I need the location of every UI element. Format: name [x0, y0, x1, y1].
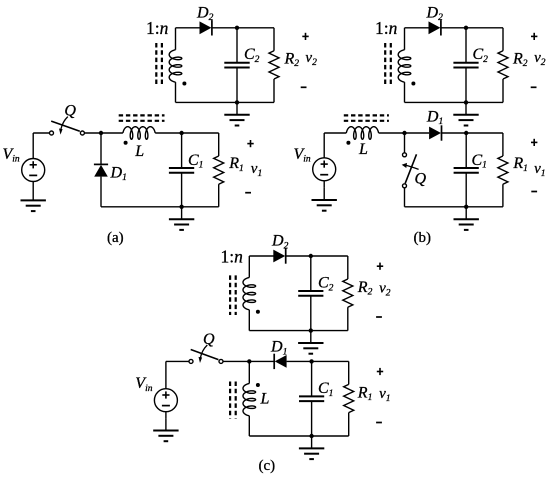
wire Vin to switch (a) [33, 132, 49, 134]
wire C1 stem top (a) [181, 133, 183, 168]
wire bottom (c) [249, 435, 348, 437]
transformer secondary winding 1:n (a) [175, 28, 177, 50]
svg-text:(b): (b) [414, 230, 432, 246]
ground output (a) [169, 207, 194, 230]
resistor R2 c-top [343, 279, 353, 307]
ground b-top [453, 102, 478, 125]
wire C1 stem top (b) [465, 133, 467, 168]
label + v1 (c) [377, 368, 383, 375]
wire C stem bottom c-top [310, 296, 312, 331]
svg-text:Vin: Vin [294, 146, 311, 165]
capacitor C2 a-top [224, 63, 249, 68]
svg-text:D1: D1 [270, 339, 287, 358]
voltage source Vin (a) [22, 159, 45, 182]
label - v1 (c) [376, 422, 382, 424]
wire Vin bottom vertical (b) [323, 181, 325, 188]
svg-text:D2: D2 [271, 233, 289, 252]
node C1 top (c) [309, 359, 313, 363]
node top a-top [235, 26, 239, 30]
svg-text:Q: Q [415, 171, 427, 188]
svg-text:(c): (c) [259, 458, 276, 474]
node D1 top (a) [99, 131, 103, 135]
resistor R2 a-top [269, 51, 279, 79]
polarity dot L (b) [346, 141, 350, 145]
polarity dot L (a) [124, 141, 128, 145]
label + v2 (a) [302, 33, 308, 40]
diode D2 c-top [273, 248, 285, 263]
wire C stem top b-top [465, 28, 467, 63]
svg-text:v1: v1 [379, 386, 390, 404]
wire bottom (a) [101, 206, 219, 208]
label + v2 (c) [377, 263, 383, 270]
wire D1 to R1 (c) [287, 360, 349, 362]
svg-text:C2: C2 [473, 46, 489, 65]
inductor core dashes (c) [230, 382, 236, 419]
transformer core dashes (a) [156, 43, 162, 86]
node C1 top (a) [179, 131, 183, 135]
inductor L coil (b) [346, 127, 378, 140]
wire R1 branch (a) [218, 133, 220, 156]
wire C1 stem top (c) [311, 361, 313, 396]
wire R branch a-top [273, 28, 275, 51]
wire R branch b-top [502, 28, 504, 51]
resistor R1 (a) [214, 156, 224, 184]
wire C stem bottom b-top [465, 68, 467, 103]
svg-text:1:n: 1:n [146, 18, 169, 38]
capacitor C1 (b) [454, 168, 479, 173]
wire top mid a-top [212, 27, 274, 29]
diode D2 a-top [200, 20, 212, 35]
svg-text:R2: R2 [284, 50, 300, 69]
wire bottom b-top [405, 101, 504, 103]
node ground (c) [309, 434, 313, 438]
wire R1 branch (b) [502, 133, 504, 156]
ground Vin (c) [153, 418, 178, 441]
polarity dot L (c) [256, 383, 260, 387]
node L top (c) [247, 359, 251, 363]
ground Vin (a) [21, 188, 46, 211]
wire Vin to L (b) [324, 132, 346, 134]
wire Vin bottom vertical (c) [165, 412, 167, 418]
inductor L coil (a) [123, 127, 155, 140]
svg-text:(a): (a) [107, 230, 124, 246]
svg-text:R2: R2 [512, 50, 528, 69]
capacitor C1 (a) [169, 168, 194, 173]
wire D1 to R1 (b) [442, 132, 503, 134]
wire R1 bottom lead (b) [502, 184, 504, 207]
svg-text:R1: R1 [357, 384, 373, 403]
wire top left a-top [176, 27, 200, 29]
svg-text:R2: R2 [357, 279, 373, 298]
wire C stem top a-top [236, 28, 238, 63]
wire switch to node (c) [223, 360, 275, 362]
node switch top (b) [402, 131, 406, 135]
node C1 top (b) [464, 131, 468, 135]
diode D1 (b) [429, 125, 441, 140]
node top b-top [464, 26, 468, 30]
wire top left b-top [405, 27, 429, 29]
svg-text:C1: C1 [318, 380, 333, 399]
diode D2 b-top [429, 20, 441, 35]
ground output (c) [299, 436, 324, 459]
polarity dot secondary (b) [411, 82, 415, 86]
diode D1 (a) [94, 164, 108, 176]
polarity dot secondary (c) [256, 310, 260, 314]
svg-text:v1: v1 [534, 161, 545, 179]
svg-text:R1: R1 [512, 155, 528, 174]
svg-text:L: L [134, 143, 144, 160]
svg-text:Vin: Vin [135, 375, 152, 394]
wire Vin to switch (c) [166, 360, 189, 362]
capacitor C1 (c) [299, 396, 324, 401]
node bottom c-top [309, 328, 313, 332]
label + v1 (a) [247, 140, 253, 147]
wire Vin top vertical (a) [32, 133, 34, 159]
label + v2 (b) [531, 33, 537, 40]
wire R bottom lead a-top [273, 79, 275, 102]
wire Vin top vertical (c) [165, 361, 167, 388]
wire C1 stem bottom (a) [181, 173, 183, 207]
resistor R1 (b) [498, 156, 508, 184]
wire R1 bottom lead (c) [348, 413, 350, 436]
wire C1 stem bottom (c) [311, 401, 313, 436]
wire bottom c-top [249, 330, 347, 332]
svg-text:R1: R1 [228, 155, 244, 174]
switch Q (a) [50, 117, 85, 135]
transformer secondary coil (a) [169, 50, 182, 82]
inductor L coil (c) [243, 384, 256, 416]
svg-text:v2: v2 [379, 281, 391, 299]
wire R bottom lead c-top [347, 307, 349, 330]
node bottom a-top [235, 100, 239, 104]
resistor R2 b-top [498, 51, 508, 79]
wire L to node (a) [155, 132, 219, 134]
inductor core dashes (b) [344, 115, 389, 120]
transformer secondary winding 1:n (c) [248, 256, 250, 278]
wire Vin bottom vertical (a) [32, 182, 34, 189]
wire top left c-top [249, 255, 273, 257]
wire C stem bottom a-top [236, 68, 238, 103]
wire R1 bottom lead (a) [218, 184, 220, 207]
svg-text:L: L [358, 141, 368, 158]
svg-text:C1: C1 [188, 152, 203, 171]
wire switch to node (a) [84, 132, 123, 134]
transformer secondary winding 1:n (b) [404, 28, 406, 50]
transformer secondary coil (c) [243, 278, 256, 310]
svg-text:Q: Q [203, 331, 215, 348]
capacitor C2 c-top [298, 291, 323, 296]
svg-text:Q: Q [64, 103, 76, 120]
wire top mid c-top [286, 255, 348, 257]
wire C stem top c-top [310, 256, 312, 291]
wire D1 bottom (a) [100, 177, 102, 207]
svg-text:L: L [260, 391, 270, 408]
svg-text:D2: D2 [426, 4, 444, 23]
svg-text:C1: C1 [472, 152, 487, 171]
wire R1 branch (c) [348, 361, 350, 384]
svg-text:C2: C2 [244, 46, 260, 65]
capacitor C2 b-top [453, 63, 478, 68]
wire bottom a-top [176, 101, 275, 103]
svg-text:Vin: Vin [3, 146, 20, 165]
svg-text:v2: v2 [534, 50, 546, 68]
svg-text:v2: v2 [305, 50, 317, 68]
transformer secondary coil (b) [398, 50, 411, 82]
ground Vin (b) [312, 188, 337, 211]
inductor core dashes (a) [119, 115, 165, 120]
wire bottom (b) [405, 206, 503, 208]
svg-text:1:n: 1:n [375, 18, 398, 38]
label - v1 (b) [531, 191, 537, 193]
transformer core dashes (b) [385, 43, 391, 86]
voltage source Vin (c) [154, 389, 177, 412]
wire Vin top vertical (b) [323, 133, 325, 158]
wire R bottom lead b-top [502, 79, 504, 102]
node ground (b) [464, 205, 468, 209]
diode D1 branch (a) [100, 133, 102, 164]
transformer core dashes (c) [230, 275, 236, 315]
node bottom b-top [464, 100, 468, 104]
svg-text:1:n: 1:n [221, 247, 244, 267]
wire C1 stem bottom (b) [465, 173, 467, 207]
label - v2 (a) [301, 86, 307, 88]
label - v1 (a) [245, 192, 251, 194]
voltage source Vin (b) [313, 158, 336, 181]
svg-text:v1: v1 [251, 161, 262, 179]
node ground (a) [179, 205, 183, 209]
node top c-top [309, 254, 313, 258]
ground a-top [224, 102, 249, 125]
polarity dot secondary (a) [182, 82, 186, 86]
ground c-top [298, 331, 323, 354]
ground output (b) [454, 207, 479, 230]
switch Q (b) [402, 153, 419, 188]
switch Q branch (b) [404, 133, 406, 153]
svg-text:D1: D1 [426, 108, 443, 127]
diode D1 (c) [274, 354, 286, 369]
wire L to D1 (b) [379, 132, 430, 134]
label - v2 (b) [531, 86, 537, 88]
resistor R1 (c) [344, 384, 354, 412]
wire top mid b-top [441, 27, 503, 29]
label - v2 (c) [376, 316, 382, 318]
svg-text:D2: D2 [196, 4, 214, 23]
wire R branch c-top [347, 256, 349, 279]
label + v1 (b) [531, 139, 537, 146]
svg-text:C2: C2 [318, 275, 334, 294]
switch Q (c) [189, 345, 223, 363]
svg-text:D1: D1 [110, 164, 127, 183]
